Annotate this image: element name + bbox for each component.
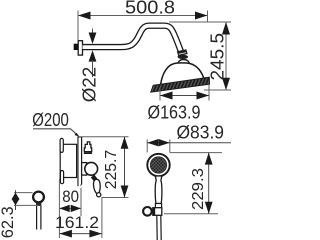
hand shower head outer circle [147, 154, 169, 176]
dimension 225.7 extension bottom [102, 197, 129, 199]
outlet elbow nub [36, 203, 41, 206]
extension line left (wall plane) [77, 11, 79, 41]
head neck [177, 60, 190, 67]
hand shower handle bottom connector [155, 204, 161, 210]
wall escutcheon [78, 41, 82, 55]
arm end connector nut [177, 49, 188, 56]
dimension 245.5 line [225, 22, 227, 91]
dimension 229.3 extension top [170, 152, 222, 154]
holder bracket [153, 208, 162, 216]
mixer upper pipe clip [60, 138, 63, 152]
svg-text:500.8: 500.8 [125, 0, 175, 18]
dimension diameter 163.9 line with arrows [160, 95, 209, 97]
dimension 225.7 extension top [79, 136, 129, 138]
extension line arm peak horizontal [169, 21, 231, 23]
mixer lower pipe clip [60, 171, 63, 184]
handle tip ring [97, 193, 101, 197]
dimension 500.8 line [78, 15, 208, 17]
dimension 500.8 right arrow [195, 12, 208, 20]
dimension 245.5 top arrow [222, 22, 230, 35]
dimension 80 right extension [80, 188, 82, 216]
shared left extension line [58, 179, 60, 239]
handle neck collar [93, 176, 96, 180]
svg-text:245.5: 245.5 [208, 33, 228, 81]
outlet elbow circle (62.3 view) [33, 192, 44, 203]
extension line right vertical [207, 11, 209, 23]
handle grip [93, 179, 100, 193]
dimension 245.5 bottom arrow [222, 78, 230, 90]
svg-text:225.7: 225.7 [103, 150, 120, 190]
head collar band [178, 55, 189, 59]
svg-text:Ø83.9: Ø83.9 [177, 122, 225, 142]
diameter 200 leader line [33, 129, 78, 136]
cartridge housing [82, 163, 87, 176]
dimension diameter 83.9 line with arrows [147, 142, 231, 144]
svg-text:Ø22: Ø22 [80, 67, 100, 103]
svg-text:62.3: 62.3 [0, 206, 17, 238]
dimension 62.3 extension lines [14, 192, 33, 194]
outlet hose lines [36, 206, 38, 230]
hand shower handle spindle [155, 176, 162, 204]
cartridge ball [85, 162, 98, 175]
svg-text:161.2: 161.2 [55, 213, 99, 232]
dimension diameter 163.9 extension lines [159, 87, 161, 101]
dimension diameter 22 up arrow [89, 50, 97, 61]
dimension 161.2 right extension [101, 198, 103, 239]
dimension 229.3 line [208, 153, 210, 214]
hose lines [156, 215, 158, 240]
shower head bell dome [161, 63, 205, 85]
dimension 500.8 left arrow [78, 12, 91, 20]
dimension diameter 83.9 extension lines [146, 140, 148, 153]
shower arm tube [83, 26, 182, 54]
dimension 229.3 extension bottom [164, 213, 218, 215]
shower head ribbed face plate [151, 77, 210, 92]
svg-text:80: 80 [62, 187, 79, 206]
wall nut [74, 44, 78, 50]
escutcheon plate (edge view) [77, 137, 78, 186]
svg-text:Ø163.9: Ø163.9 [148, 103, 201, 123]
extension line head bottom [204, 89, 231, 91]
holder ring [143, 207, 152, 216]
dimension diameter 22 down arrow [92, 29, 94, 35]
dimension 161.2 line [59, 233, 102, 235]
diverter knob [84, 142, 91, 152]
dimension 225.7 line [124, 137, 126, 198]
mixer valve body [60, 144, 76, 177]
dimension 80 line [59, 207, 81, 209]
dimension 62.3 line and arrows [15, 190, 17, 210]
svg-text:229.3: 229.3 [190, 168, 207, 210]
svg-text:Ø200: Ø200 [32, 110, 69, 130]
